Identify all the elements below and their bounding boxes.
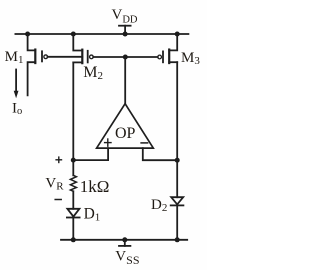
wire resistor to D1	[72, 191, 74, 209]
wire M2 drain down	[72, 62, 74, 175]
node VSS stub junction	[122, 237, 127, 242]
wire gate bus M2 to M3	[93, 56, 158, 58]
op-amp plus input mark	[105, 139, 111, 146]
op-amp U1 triangle	[97, 104, 154, 148]
node VDD stub junction	[123, 32, 128, 37]
wire bottom VSS rail	[61, 239, 187, 241]
wire op-amp plus input lead	[73, 148, 108, 160]
wire VDD stub	[124, 26, 126, 34]
diode D2	[171, 197, 184, 205]
node D2 rail junction	[175, 237, 180, 242]
op-amp OP label	[115, 125, 136, 142]
svg-text:1kΩ: 1kΩ	[80, 177, 110, 196]
wire op-amp minus input lead	[143, 148, 177, 160]
1k value label	[80, 177, 110, 196]
D2 label	[151, 197, 167, 214]
transistor M2 (PMOS)	[73, 34, 93, 63]
wire M3 drain down	[176, 62, 178, 197]
VDD label	[112, 7, 138, 26]
wire D2 to VSS rail	[176, 205, 178, 239]
op-amp minus input mark	[141, 142, 148, 144]
wire VSS stub	[124, 240, 126, 246]
wire M1 gate to M2	[48, 56, 83, 58]
wire top VDD rail	[15, 33, 188, 35]
M3 label	[181, 50, 200, 67]
D1 label	[84, 206, 101, 224]
VR minus polarity mark	[55, 199, 61, 201]
diode D1	[67, 209, 80, 218]
svg-text:OP: OP	[115, 125, 136, 142]
VR label	[45, 176, 64, 193]
wire op-amp output to gate bus	[124, 57, 126, 104]
current arrow Io	[14, 70, 19, 99]
VSS label	[115, 249, 139, 267]
node gate bus junction	[123, 55, 128, 60]
node M3 source junction	[175, 32, 180, 37]
transistor M1 (PMOS)	[28, 34, 48, 95]
node D1 rail junction	[71, 237, 76, 242]
VR plus polarity mark	[56, 157, 61, 162]
wire D1 to VSS rail	[72, 218, 74, 240]
Io label	[12, 101, 22, 117]
node minus input tap	[175, 158, 180, 163]
VDD terminal tick	[119, 25, 131, 27]
resistor 1k	[70, 175, 76, 191]
M1 label	[5, 49, 24, 66]
transistor M3 (PMOS, mirrored)	[158, 34, 177, 63]
node plus input tap	[71, 158, 76, 163]
node M1 source junction	[25, 32, 30, 37]
M2 label	[83, 64, 103, 82]
VSS terminal tick	[119, 245, 130, 247]
node M2 source junction	[71, 32, 76, 37]
